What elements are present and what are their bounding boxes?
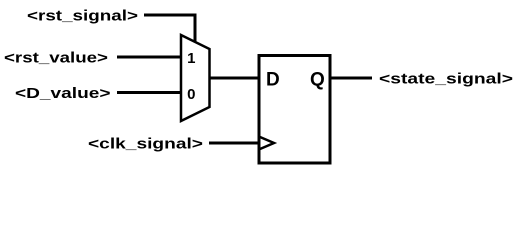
svg-text:<clk_signal>: <clk_signal> — [88, 135, 203, 152]
svg-text:<rst_value>: <rst_value> — [4, 49, 108, 66]
svg-text:<D_value>: <D_value> — [15, 85, 111, 102]
svg-text:1: 1 — [187, 50, 195, 67]
svg-text:0: 0 — [187, 86, 195, 103]
svg-text:<state_signal>: <state_signal> — [379, 70, 513, 87]
svg-text:D: D — [266, 70, 280, 91]
svg-text:Q: Q — [310, 70, 325, 91]
svg-text:<rst_signal>: <rst_signal> — [27, 7, 138, 24]
